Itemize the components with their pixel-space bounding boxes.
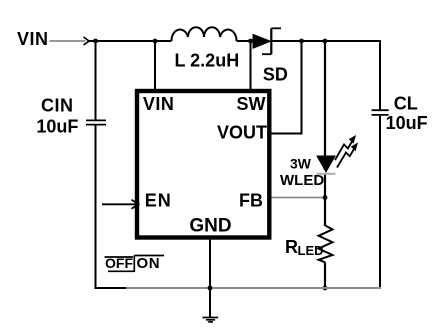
capacitor CL plates	[372, 109, 389, 111]
svg-text:VOUT: VOUT	[217, 123, 267, 143]
svg-text:CL: CL	[394, 93, 418, 113]
inductor L 2.2uH	[171, 27, 236, 41]
capacitor CIN bottom lead / left rail	[95, 126, 97, 290]
svg-text:L 2.2uH: L 2.2uH	[175, 51, 240, 71]
wire VIN lead-in (gray)	[50, 40, 86, 42]
svg-text:GND: GND	[189, 216, 231, 237]
OFF low-level underline	[108, 270, 134, 272]
junction FB / LED	[323, 195, 328, 200]
wire GND pin lead	[209, 239, 211, 317]
svg-text:10uF: 10uF	[36, 117, 78, 137]
wire top rail left segment	[89, 40, 172, 42]
LED emission arrow 2	[337, 149, 354, 168]
svg-text:LED: LED	[298, 243, 324, 258]
wire IC VIN riser	[154, 41, 156, 90]
wire FB (gray)	[272, 197, 326, 199]
svg-text:R: R	[285, 237, 298, 257]
svg-text:ON: ON	[137, 255, 161, 272]
wire LED branch upper	[324, 41, 326, 157]
capacitor CL bottom lead	[379, 116, 381, 288]
LED emission arrow 1	[335, 142, 352, 161]
diode SD schottky top hook	[271, 27, 281, 29]
wire VIN arrowhead	[84, 37, 90, 45]
junction at LED tap	[323, 39, 328, 44]
junction at VOUT tap	[299, 39, 304, 44]
LED cathode bar (gray)	[317, 173, 336, 175]
resistor RLED zigzag	[319, 226, 333, 263]
wire EN arrow	[102, 203, 136, 205]
svg-text:WLED: WLED	[280, 172, 324, 189]
waveform riser	[133, 256, 135, 273]
wire inductor to diode	[237, 40, 254, 42]
svg-text:SD: SD	[263, 64, 288, 84]
junction at CIN tap	[93, 39, 98, 44]
svg-text:CIN: CIN	[41, 96, 74, 116]
diode SD (schottky) triangle	[253, 34, 271, 48]
wire SW riser	[250, 41, 252, 90]
wire diode cathode to CL corner	[271, 40, 380, 42]
wire VOUT riser	[272, 41, 302, 134]
LED 3W WLED triangle	[317, 156, 335, 172]
junction GND / bottom rail	[208, 286, 213, 291]
junction at IC VIN tap	[153, 39, 158, 44]
IC U1 (boost converter) box	[137, 91, 269, 238]
capacitor CIN top lead	[95, 41, 97, 120]
ON overline (high level)	[134, 255, 164, 257]
diode SD cathode bar	[270, 28, 272, 54]
wire LED to FB junction	[324, 175, 326, 226]
svg-text:VIN: VIN	[143, 94, 175, 114]
svg-text:EN: EN	[145, 190, 172, 210]
wire bottom rail black stub	[95, 287, 127, 289]
ground symbol	[203, 317, 219, 319]
diode SD schottky bottom hook	[262, 53, 271, 55]
wire resistor bottom lead	[324, 263, 326, 289]
svg-text:10uF: 10uF	[386, 113, 428, 133]
svg-text:FB: FB	[239, 191, 263, 211]
capacitor CL top lead	[379, 40, 381, 109]
svg-text:SW: SW	[237, 94, 266, 114]
OFF overline	[105, 256, 134, 258]
wire bottom rail (gray)	[126, 287, 381, 289]
junction at SW tap / diode anode	[248, 39, 253, 44]
svg-text:3W: 3W	[290, 155, 312, 171]
capacitor CIN plates	[86, 119, 106, 121]
svg-text:VIN: VIN	[17, 29, 49, 49]
junction RLED / bottom rail	[323, 286, 328, 291]
